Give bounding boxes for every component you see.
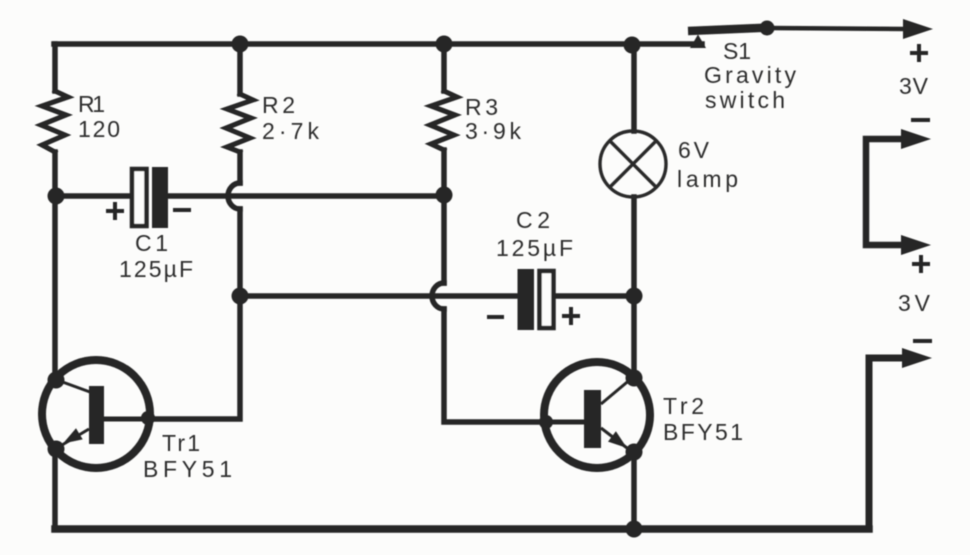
lamp 6V <box>600 131 666 197</box>
svg-text:R2: R2 <box>262 92 295 118</box>
wire R2 line to base node <box>237 209 243 296</box>
wire R3 node to hop <box>441 195 447 283</box>
wire Tr2 base lead <box>546 420 584 425</box>
wire top rail <box>54 41 702 47</box>
svg-text:R3: R3 <box>465 94 498 120</box>
node Tr1 base circle crossing <box>141 411 155 425</box>
label battery1 minus <box>911 118 930 122</box>
svg-text:R1: R1 <box>78 91 105 117</box>
wire left rail upper lead <box>52 44 58 91</box>
capacitor C1 plate negative <box>152 167 168 228</box>
svg-text:125µF: 125µF <box>119 256 193 282</box>
transistor Tr2 <box>544 362 650 468</box>
resistor R2 <box>226 94 253 152</box>
node top R3 <box>436 36 453 53</box>
node C2 left R2 <box>232 288 249 305</box>
svg-text:3V: 3V <box>898 290 931 316</box>
label battery1 plus <box>910 44 928 62</box>
node Tr2 emitter <box>626 444 643 461</box>
wire hop over C2 wire <box>432 283 444 309</box>
node bottom lamp line <box>626 521 643 538</box>
wire left rail Tr1 emitter to bottom <box>52 449 58 529</box>
label battery2 plus <box>912 255 930 273</box>
switch S1 pivot dot <box>760 21 775 36</box>
svg-text:BFY51: BFY51 <box>663 419 743 445</box>
resistor R3 lead <box>441 44 447 91</box>
node Tr2 base circle crossing <box>539 415 553 429</box>
svg-text:3V: 3V <box>899 73 929 99</box>
svg-text:6V: 6V <box>678 137 710 163</box>
node C1 left <box>48 188 65 205</box>
label C1 plus <box>106 202 124 220</box>
battery arrow 2 <box>901 129 931 149</box>
svg-text:lamp: lamp <box>677 166 738 192</box>
node top R2 <box>232 36 249 53</box>
svg-text:C1: C1 <box>135 230 168 256</box>
node top lamp <box>624 37 641 54</box>
svg-text:125µF: 125µF <box>496 235 573 261</box>
svg-text:2·7k: 2·7k <box>262 118 320 144</box>
label C1 minus <box>173 208 191 212</box>
wire R2 line node to Tr1 base corner <box>148 296 240 419</box>
wire hop over C1 wire <box>228 183 240 209</box>
wire lamp bottom to Tr2 collector <box>631 197 637 377</box>
svg-text:Tr2: Tr2 <box>663 393 704 419</box>
node Tr1 emitter <box>48 441 65 458</box>
svg-text:120: 120 <box>78 116 120 142</box>
wire Tr1 base lead <box>104 417 148 422</box>
label battery2 minus <box>913 339 932 343</box>
switch S1 contact arrowhead <box>690 35 706 49</box>
svg-text:S1: S1 <box>723 38 751 64</box>
resistor R2 lead <box>237 44 243 94</box>
wire C2 row left <box>240 293 518 299</box>
svg-text:BFY51: BFY51 <box>143 456 232 482</box>
wire C1 row right <box>168 193 444 199</box>
svg-text:Tr1: Tr1 <box>162 430 200 456</box>
wire right lower vertical to arrow4 <box>869 358 904 529</box>
wire switch to arrow1 <box>769 28 906 29</box>
resistor R1 <box>41 91 68 152</box>
wire bottom rail <box>55 525 869 533</box>
label C2 minus <box>487 315 504 319</box>
wire R3 to C1 node <box>441 150 447 195</box>
battery arrow 4 <box>902 348 932 368</box>
wire hop to Tr2 base corner <box>444 309 546 422</box>
capacitor C1 plate positive <box>132 169 147 226</box>
capacitor C2 plate positive <box>540 271 554 328</box>
transistor Tr1 <box>42 360 150 468</box>
switch S1 arm <box>688 28 770 32</box>
wire R2 to hop <box>237 152 243 183</box>
battery arrow 1 <box>903 19 933 39</box>
node Tr1 collector <box>48 372 65 389</box>
wire C2 row right <box>554 293 634 299</box>
node Tr2 collector <box>626 370 643 387</box>
wire Tr2 emitter to bottom rail <box>631 453 637 529</box>
wire left rail R1 to Tr1 collector <box>52 152 58 379</box>
svg-text:3·9k: 3·9k <box>465 118 522 144</box>
wire C1 row left <box>55 193 131 199</box>
battery arrow 3 <box>901 235 931 255</box>
label C2 plus <box>562 307 580 325</box>
capacitor C2 plate negative <box>518 269 535 330</box>
node C1 right R3 <box>436 187 453 204</box>
wire battery link bracket <box>866 139 903 245</box>
resistor R3 <box>430 91 457 150</box>
node C2 right lamp <box>626 288 643 305</box>
wire lamp top lead <box>631 44 637 131</box>
